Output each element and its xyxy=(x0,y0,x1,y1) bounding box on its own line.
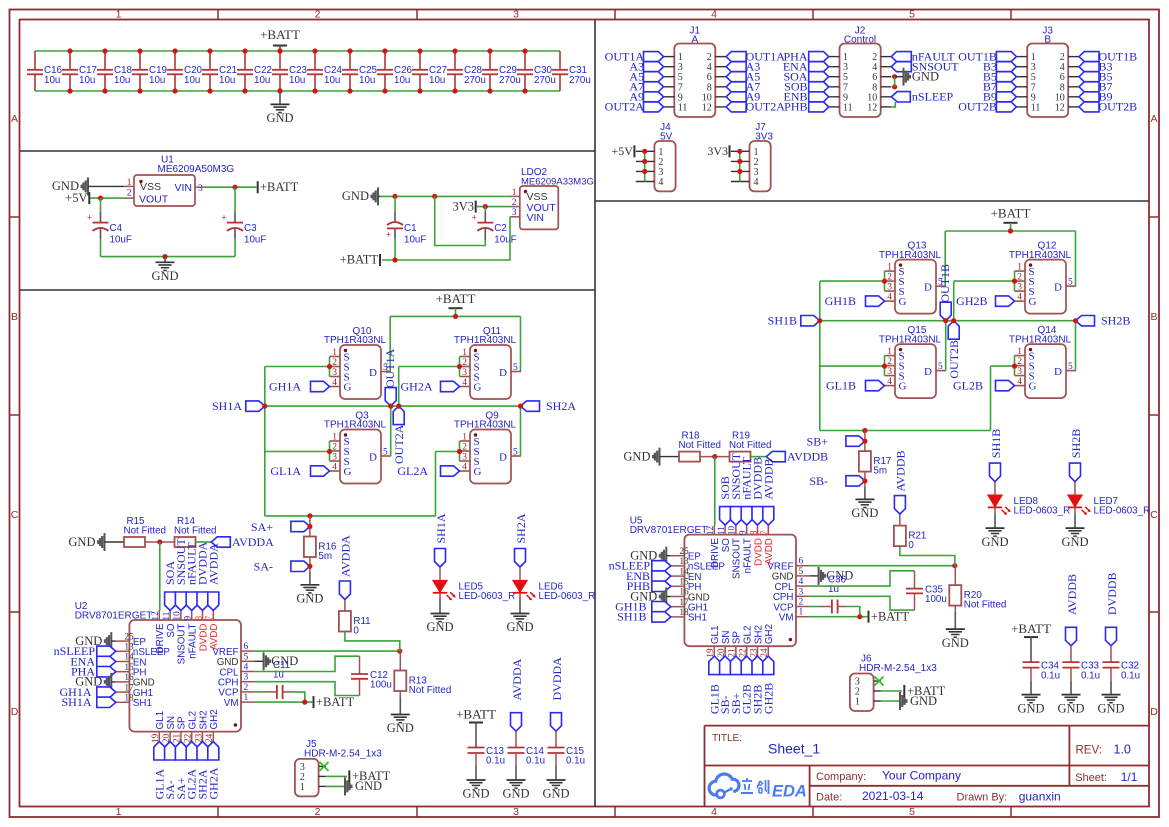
svg-text:LED-0603_R: LED-0603_R xyxy=(539,591,596,602)
svg-text:5m: 5m xyxy=(318,551,332,562)
svg-text:2: 2 xyxy=(315,8,321,20)
svg-text:GND: GND xyxy=(462,787,489,801)
svg-text:+: + xyxy=(221,213,226,223)
svg-text:5V: 5V xyxy=(660,132,673,143)
svg-text:10u: 10u xyxy=(149,75,165,86)
svg-text:TPH1R403NL: TPH1R403NL xyxy=(879,334,942,345)
svg-text:2: 2 xyxy=(462,443,467,453)
svg-text:5: 5 xyxy=(1068,278,1073,288)
svg-text:Your Company: Your Company xyxy=(882,768,961,782)
svg-text:2: 2 xyxy=(887,273,892,283)
svg-text:OUT2B: OUT2B xyxy=(958,100,997,114)
svg-text:1: 1 xyxy=(332,348,337,358)
svg-text:AVDDB: AVDDB xyxy=(761,458,775,499)
svg-text:4: 4 xyxy=(332,463,337,473)
svg-text:GND: GND xyxy=(426,620,453,634)
svg-text:5: 5 xyxy=(909,806,915,818)
svg-text:SH2B: SH2B xyxy=(1069,429,1083,458)
svg-text:Not Fitted: Not Fitted xyxy=(729,440,771,451)
svg-text:D: D xyxy=(1054,282,1062,294)
svg-text:10uF: 10uF xyxy=(404,234,426,245)
svg-text:6: 6 xyxy=(799,557,804,567)
svg-text:4: 4 xyxy=(711,8,717,20)
svg-text:1: 1 xyxy=(332,433,337,443)
svg-text:TPH1R403NL: TPH1R403NL xyxy=(879,250,942,261)
svg-text:GH2A: GH2A xyxy=(401,379,433,393)
svg-text:1: 1 xyxy=(799,608,804,618)
svg-text:GND: GND xyxy=(151,269,178,283)
svg-text:AVDDA: AVDDA xyxy=(510,658,524,700)
svg-text:D: D xyxy=(924,366,932,378)
svg-text:8: 8 xyxy=(193,616,203,621)
svg-text:SH1A: SH1A xyxy=(61,695,91,709)
svg-text:OUT2A: OUT2A xyxy=(605,100,645,114)
svg-text:C3: C3 xyxy=(244,223,257,234)
svg-text:VIN: VIN xyxy=(174,182,192,194)
svg-text:GND: GND xyxy=(1017,701,1044,715)
svg-text:1: 1 xyxy=(244,693,249,703)
svg-text:3: 3 xyxy=(244,673,249,683)
svg-text:GL1A: GL1A xyxy=(270,464,301,478)
svg-text:1.0: 1.0 xyxy=(1114,743,1131,757)
svg-text:3: 3 xyxy=(198,184,203,194)
svg-text:SP: SP xyxy=(177,716,188,730)
svg-text:GND: GND xyxy=(942,636,969,650)
svg-text:B: B xyxy=(1150,311,1157,323)
svg-text:GND: GND xyxy=(266,111,293,125)
svg-text:GL1: GL1 xyxy=(710,626,721,645)
svg-text:9: 9 xyxy=(738,530,748,535)
svg-text:DVDD: DVDD xyxy=(198,624,209,652)
svg-text:DVDDB: DVDDB xyxy=(1105,572,1119,615)
svg-text:10uF: 10uF xyxy=(494,234,516,245)
svg-text:GND: GND xyxy=(342,189,369,203)
svg-text:4: 4 xyxy=(244,663,249,673)
svg-text:10u: 10u xyxy=(79,75,95,86)
svg-text:+BATT: +BATT xyxy=(260,27,300,42)
svg-text:1: 1 xyxy=(116,8,122,20)
svg-text:2: 2 xyxy=(1017,357,1022,367)
svg-text:D: D xyxy=(1150,706,1158,718)
svg-text:OUT2A: OUT2A xyxy=(392,424,406,464)
svg-text:1: 1 xyxy=(1017,347,1022,357)
svg-text:5: 5 xyxy=(909,8,915,20)
svg-text:D: D xyxy=(11,706,19,718)
svg-text:AVDDA: AVDDA xyxy=(338,535,352,577)
svg-text:GND: GND xyxy=(910,694,937,708)
svg-text:GND: GND xyxy=(912,70,939,84)
svg-text:10u: 10u xyxy=(44,75,60,86)
svg-text:10u: 10u xyxy=(289,75,305,86)
svg-text:SH1A: SH1A xyxy=(212,399,242,413)
svg-text:D: D xyxy=(499,452,507,464)
svg-text:0.1u: 0.1u xyxy=(566,756,585,767)
svg-text:Not Fitted: Not Fitted xyxy=(124,526,166,537)
svg-text:G: G xyxy=(1029,296,1037,308)
svg-text:SH2B: SH2B xyxy=(1101,314,1130,328)
svg-text:0.1u: 0.1u xyxy=(1121,670,1140,681)
svg-text:VIN: VIN xyxy=(527,212,545,224)
svg-text:D: D xyxy=(924,282,932,294)
svg-text:GND: GND xyxy=(623,449,650,463)
svg-text:GH1B: GH1B xyxy=(825,294,856,308)
svg-text:+BATT: +BATT xyxy=(991,206,1031,221)
svg-text:C4: C4 xyxy=(110,223,123,234)
svg-text:SN: SN xyxy=(721,630,732,644)
svg-text:Not Fitted: Not Fitted xyxy=(964,600,1006,611)
svg-text:GND: GND xyxy=(355,779,382,793)
svg-text:5m: 5m xyxy=(873,466,887,477)
svg-text:nSLEEP: nSLEEP xyxy=(912,90,954,104)
svg-text:OUT2B: OUT2B xyxy=(1099,100,1138,114)
svg-text:0.1u: 0.1u xyxy=(1081,670,1100,681)
svg-text:GND: GND xyxy=(1057,701,1084,715)
svg-text:AVDDB: AVDDB xyxy=(1065,574,1079,615)
svg-text:10u: 10u xyxy=(359,75,375,86)
svg-text:Drawn By:: Drawn By: xyxy=(957,791,1008,803)
svg-text:4: 4 xyxy=(1017,377,1022,387)
svg-text:TPH1R403NL: TPH1R403NL xyxy=(454,335,517,346)
svg-text:10u: 10u xyxy=(324,75,340,86)
svg-text:GH1A: GH1A xyxy=(269,379,301,393)
svg-text:5: 5 xyxy=(1068,362,1073,372)
svg-text:0: 0 xyxy=(908,540,914,551)
svg-text:GH2: GH2 xyxy=(209,709,220,729)
svg-text:10u: 10u xyxy=(394,75,410,86)
svg-text:1: 1 xyxy=(462,348,467,358)
svg-text:G: G xyxy=(474,381,482,393)
svg-text:0.1u: 0.1u xyxy=(526,756,545,767)
svg-text:270u: 270u xyxy=(464,75,486,86)
svg-text:GL1: GL1 xyxy=(155,711,166,730)
svg-text:GL2A: GL2A xyxy=(397,464,428,478)
svg-text:3: 3 xyxy=(332,368,337,378)
svg-text:SO: SO xyxy=(166,623,177,638)
svg-text:TPH1R403NL: TPH1R403NL xyxy=(454,420,517,431)
svg-text:1: 1 xyxy=(462,433,467,443)
svg-text:3V3: 3V3 xyxy=(452,199,474,213)
svg-text:3: 3 xyxy=(513,806,519,818)
svg-text:SH1B: SH1B xyxy=(617,610,646,624)
svg-text:2: 2 xyxy=(127,188,132,198)
svg-text:2: 2 xyxy=(332,358,337,368)
svg-text:VM: VM xyxy=(779,613,794,624)
svg-text:AVDDA: AVDDA xyxy=(232,535,274,549)
svg-text:D: D xyxy=(369,367,377,379)
svg-text:G: G xyxy=(344,381,352,393)
svg-text:12: 12 xyxy=(1055,102,1065,113)
svg-text:9: 9 xyxy=(183,616,193,621)
svg-text:SH1B: SH1B xyxy=(989,429,1003,458)
svg-text:Sheet:: Sheet: xyxy=(1075,772,1107,784)
svg-text:GND: GND xyxy=(68,535,95,549)
svg-text:GND: GND xyxy=(1097,701,1124,715)
svg-text:4: 4 xyxy=(754,177,759,188)
svg-text:1: 1 xyxy=(300,782,305,793)
svg-text:100u: 100u xyxy=(925,594,947,605)
svg-text:4: 4 xyxy=(332,378,337,388)
svg-text:SH2A: SH2A xyxy=(514,513,528,543)
svg-text:B: B xyxy=(11,311,18,323)
svg-text:3: 3 xyxy=(887,283,892,293)
svg-text:TPH1R403NL: TPH1R403NL xyxy=(324,420,387,431)
svg-text:OUT1A: OUT1A xyxy=(383,348,397,388)
svg-text:10u: 10u xyxy=(184,75,200,86)
svg-text:HDR-M-2.54_1x3: HDR-M-2.54_1x3 xyxy=(859,663,937,674)
svg-text:D: D xyxy=(499,367,507,379)
svg-text:G: G xyxy=(474,466,482,478)
svg-text:GL2: GL2 xyxy=(743,626,754,645)
svg-text:4: 4 xyxy=(658,177,663,188)
svg-text:4: 4 xyxy=(887,377,892,387)
svg-text:3: 3 xyxy=(513,8,519,20)
svg-text:TPH1R403NL: TPH1R403NL xyxy=(1009,334,1072,345)
svg-text:3: 3 xyxy=(799,587,804,597)
svg-text:C1: C1 xyxy=(404,223,417,234)
svg-text:4: 4 xyxy=(1017,293,1022,303)
svg-text:5: 5 xyxy=(244,652,249,662)
svg-text:nFAULT: nFAULT xyxy=(743,538,754,573)
svg-text:4: 4 xyxy=(462,463,467,473)
svg-text:SNSOUT: SNSOUT xyxy=(177,623,188,664)
svg-text:REV:: REV: xyxy=(1076,745,1102,757)
svg-text:7: 7 xyxy=(204,616,214,621)
svg-text:C: C xyxy=(1150,509,1158,521)
svg-text:TPH1R403NL: TPH1R403NL xyxy=(324,335,387,346)
svg-text:5: 5 xyxy=(938,362,943,372)
svg-text:GH2B: GH2B xyxy=(956,294,987,308)
svg-text:5: 5 xyxy=(383,448,388,458)
svg-text:2: 2 xyxy=(462,358,467,368)
svg-text:SNSOUT: SNSOUT xyxy=(732,538,743,579)
svg-text:0: 0 xyxy=(353,626,359,637)
svg-text:+: + xyxy=(87,213,92,223)
svg-text:GL2B: GL2B xyxy=(953,378,983,392)
svg-text:4: 4 xyxy=(887,293,892,303)
svg-text:10u: 10u xyxy=(219,75,235,86)
svg-text:+5V: +5V xyxy=(65,191,87,205)
svg-text:OUT1B: OUT1B xyxy=(938,264,952,303)
svg-text:+BATT: +BATT xyxy=(1011,621,1051,636)
svg-text:5: 5 xyxy=(513,363,518,373)
svg-text:SH2: SH2 xyxy=(198,710,209,729)
svg-text:11: 11 xyxy=(678,102,688,113)
svg-text:LED-0603_R: LED-0603_R xyxy=(459,591,516,602)
svg-text:D: D xyxy=(1054,366,1062,378)
svg-text:3: 3 xyxy=(887,367,892,377)
svg-text:C: C xyxy=(11,509,19,521)
svg-text:5: 5 xyxy=(513,448,518,458)
svg-text:11: 11 xyxy=(843,102,853,113)
svg-text:+BATT: +BATT xyxy=(871,610,910,624)
svg-text:3: 3 xyxy=(1017,367,1022,377)
svg-text:11: 11 xyxy=(716,526,726,535)
svg-text:11: 11 xyxy=(1031,102,1041,113)
svg-text:nFAULT: nFAULT xyxy=(188,623,199,658)
svg-text:270u: 270u xyxy=(569,75,591,86)
svg-text:3: 3 xyxy=(332,453,337,463)
svg-text:10u: 10u xyxy=(254,75,270,86)
svg-text:A: A xyxy=(11,113,18,125)
svg-text:TITLE:: TITLE: xyxy=(712,733,742,744)
svg-text:SN: SN xyxy=(166,716,177,730)
svg-text:+: + xyxy=(472,213,477,223)
svg-text:SP: SP xyxy=(732,631,743,645)
svg-text:SH1A: SH1A xyxy=(434,513,448,543)
svg-text:A: A xyxy=(691,35,698,46)
svg-text:0.1u: 0.1u xyxy=(1041,670,1060,681)
svg-text:+BATT: +BATT xyxy=(260,180,299,194)
svg-text:+BATT: +BATT xyxy=(340,253,379,267)
svg-text:DVDDA: DVDDA xyxy=(550,657,564,701)
svg-text:8: 8 xyxy=(748,530,758,535)
svg-text:+BATT: +BATT xyxy=(456,706,496,721)
svg-text:+: + xyxy=(386,229,391,239)
svg-text:D: D xyxy=(369,452,377,464)
svg-text:Company:: Company: xyxy=(816,771,866,783)
svg-text:2: 2 xyxy=(244,683,249,693)
svg-text:1/1: 1/1 xyxy=(1121,770,1138,784)
svg-text:2: 2 xyxy=(887,357,892,367)
svg-text:2: 2 xyxy=(799,598,804,608)
svg-text:12: 12 xyxy=(150,611,160,621)
svg-text:G: G xyxy=(899,380,907,392)
svg-text:GND: GND xyxy=(1061,535,1088,549)
svg-text:1: 1 xyxy=(887,263,892,273)
svg-text:G: G xyxy=(1029,380,1037,392)
svg-text:270u: 270u xyxy=(499,75,521,86)
svg-text:SA+: SA+ xyxy=(251,520,273,534)
svg-text:SH2: SH2 xyxy=(753,625,764,644)
svg-text:GND: GND xyxy=(542,787,569,801)
svg-text:SH1: SH1 xyxy=(133,698,152,709)
svg-text:ME6209A50M3G: ME6209A50M3G xyxy=(158,164,235,175)
svg-text:+BATT: +BATT xyxy=(316,695,355,709)
svg-text:10u: 10u xyxy=(114,75,130,86)
svg-text:VM: VM xyxy=(224,698,239,709)
svg-text:GH2A: GH2A xyxy=(206,767,220,799)
svg-text:1: 1 xyxy=(1017,263,1022,273)
svg-text:6: 6 xyxy=(244,642,249,652)
svg-text:Not Fitted: Not Fitted xyxy=(409,685,451,696)
svg-text:Sheet_1: Sheet_1 xyxy=(768,741,820,757)
svg-text:+5V: +5V xyxy=(611,144,633,158)
svg-text:GND: GND xyxy=(981,535,1008,549)
svg-text:2: 2 xyxy=(315,806,321,818)
svg-text:10: 10 xyxy=(727,526,737,536)
svg-text:OUT2A: OUT2A xyxy=(746,100,786,114)
svg-text:VOUT: VOUT xyxy=(139,194,169,206)
svg-text:+BATT: +BATT xyxy=(436,291,476,306)
svg-text:12: 12 xyxy=(702,102,712,113)
svg-text:10u: 10u xyxy=(429,75,445,86)
svg-text:12: 12 xyxy=(705,526,715,536)
svg-text:G: G xyxy=(344,466,352,478)
svg-text:VSS: VSS xyxy=(140,181,161,193)
svg-text:GL1B: GL1B xyxy=(826,378,856,392)
svg-text:Control: Control xyxy=(844,35,876,46)
svg-text:C2: C2 xyxy=(494,223,507,234)
svg-text:GND: GND xyxy=(387,721,414,735)
svg-text:A: A xyxy=(1150,113,1157,125)
svg-text:GH2: GH2 xyxy=(764,624,775,644)
svg-text:1: 1 xyxy=(855,697,860,708)
svg-text:SH1: SH1 xyxy=(688,613,707,624)
svg-text:SH1B: SH1B xyxy=(768,314,797,328)
svg-text:4: 4 xyxy=(462,378,467,388)
svg-text:GND: GND xyxy=(296,592,323,606)
svg-text:SB-: SB- xyxy=(809,474,828,488)
svg-text:GND: GND xyxy=(506,620,533,634)
svg-text:12: 12 xyxy=(867,102,877,113)
svg-text:10: 10 xyxy=(172,611,182,621)
svg-text:SH2A: SH2A xyxy=(546,399,576,413)
svg-text:EDA: EDA xyxy=(772,783,807,801)
svg-text:1: 1 xyxy=(116,806,122,818)
svg-text:7: 7 xyxy=(759,530,769,535)
svg-text:PHB: PHB xyxy=(784,100,807,114)
svg-text:3V3: 3V3 xyxy=(707,144,728,158)
svg-text:LED-0603_R: LED-0603_R xyxy=(1014,506,1071,517)
svg-text:AVDDA: AVDDA xyxy=(206,543,220,585)
svg-text:3: 3 xyxy=(462,453,467,463)
svg-text:10uF: 10uF xyxy=(244,234,266,245)
svg-text:3: 3 xyxy=(462,368,467,378)
svg-text:SB+: SB+ xyxy=(807,434,829,448)
svg-text:GND: GND xyxy=(502,787,529,801)
svg-text:270u: 270u xyxy=(534,75,556,86)
svg-text:5: 5 xyxy=(799,567,804,577)
svg-text:HDR-M-2.54_1x3: HDR-M-2.54_1x3 xyxy=(304,749,382,760)
svg-text:LED-0603_R: LED-0603_R xyxy=(1094,506,1151,517)
svg-text:Not Fitted: Not Fitted xyxy=(174,526,216,537)
svg-text:Date:: Date: xyxy=(816,791,842,803)
svg-text:2: 2 xyxy=(1017,273,1022,283)
svg-text:3V3: 3V3 xyxy=(755,132,773,143)
svg-text:2021-03-14: 2021-03-14 xyxy=(862,789,924,803)
svg-text:SO: SO xyxy=(721,538,732,553)
svg-text:3: 3 xyxy=(1017,283,1022,293)
svg-text:AVDDB: AVDDB xyxy=(893,450,907,491)
svg-text:100u: 100u xyxy=(370,680,392,691)
svg-text:GND: GND xyxy=(851,506,878,520)
svg-text:SA-: SA- xyxy=(254,560,273,574)
svg-text:2: 2 xyxy=(332,443,337,453)
svg-text:TPH1R403NL: TPH1R403NL xyxy=(1009,250,1072,261)
svg-text:11: 11 xyxy=(161,611,171,620)
svg-text:DVDD: DVDD xyxy=(753,538,764,566)
svg-text:Not Fitted: Not Fitted xyxy=(679,440,721,451)
svg-text:guanxin: guanxin xyxy=(1019,789,1061,803)
svg-text:GL2: GL2 xyxy=(188,711,199,730)
svg-text:OUT2B: OUT2B xyxy=(947,340,961,379)
svg-text:4: 4 xyxy=(711,806,717,818)
svg-text:0.1u: 0.1u xyxy=(486,756,505,767)
svg-text:B: B xyxy=(1044,35,1051,46)
svg-text:GH2B: GH2B xyxy=(761,683,775,714)
svg-text:G: G xyxy=(899,296,907,308)
svg-text:4: 4 xyxy=(799,577,804,587)
svg-text:10uF: 10uF xyxy=(110,234,132,245)
svg-text:1: 1 xyxy=(887,347,892,357)
svg-text:AVDDB: AVDDB xyxy=(787,449,828,463)
